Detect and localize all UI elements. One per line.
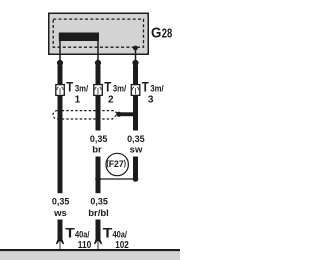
- pin knob 1: [57, 60, 63, 66]
- wire 1 upper segment: [58, 66, 63, 85]
- label T3m/ 2: [104, 80, 126, 106]
- shield dashed bottom line: [57, 115, 116, 119]
- wire label 0,35 br/bl: [88, 197, 109, 219]
- shield connection dot on dashed outline: [133, 46, 138, 51]
- svg-text:G: G: [151, 24, 161, 41]
- svg-text:0,35: 0,35: [127, 134, 145, 144]
- pin stem 2: [97, 41, 99, 61]
- connector T3m/2 symbol: [94, 85, 103, 96]
- wire 2 segment below connector: [96, 96, 101, 131]
- wire 2 bottom segment: [96, 220, 101, 240]
- svg-text:1: 1: [75, 94, 81, 105]
- svg-text:0,35: 0,35: [90, 134, 108, 144]
- wire label 0,35 br: [90, 134, 108, 155]
- connection designation circle F27: [106, 153, 128, 175]
- wire end arrow 1: [56, 239, 64, 249]
- wire label 0,35 sw: [127, 134, 145, 155]
- connector T3m/3 symbol: [131, 85, 140, 96]
- wire 1 long middle segment: [58, 96, 63, 193]
- svg-text:T: T: [142, 80, 150, 95]
- svg-text:40a/: 40a/: [75, 230, 90, 241]
- svg-text:ws: ws: [53, 208, 67, 219]
- shield dashed cap left: [53, 111, 57, 119]
- svg-text:T: T: [66, 80, 74, 95]
- pin knob 3: [132, 60, 138, 66]
- G28 sensor element bar: [59, 33, 99, 42]
- label G28: [151, 24, 172, 41]
- bottom rail line: [0, 249, 180, 251]
- svg-text:sw: sw: [130, 144, 143, 155]
- pin stem 1: [59, 41, 61, 61]
- junction dot on wire 3: [133, 176, 139, 182]
- label T3m/ 3: [142, 80, 164, 106]
- svg-text:3m/: 3m/: [75, 84, 89, 95]
- svg-text:40a/: 40a/: [113, 230, 128, 241]
- wire 3 middle segment: [133, 157, 138, 180]
- junction line wire2-wire3: [98, 178, 136, 180]
- svg-text:3: 3: [148, 94, 154, 105]
- connector T3m/1 symbol: [56, 85, 65, 96]
- svg-text:0,35: 0,35: [90, 197, 108, 207]
- shield junction dot: [116, 112, 121, 117]
- wire 2 upper segment: [96, 66, 101, 85]
- wire 3 segment below connector: [133, 96, 138, 131]
- wire label 0,35 ws: [52, 197, 70, 219]
- svg-text:F27: F27: [109, 159, 124, 170]
- shield-to-wire3 connection bar: [119, 112, 138, 116]
- sensor G28 housing box: [49, 13, 149, 54]
- svg-text:br/bl: br/bl: [88, 208, 109, 219]
- wire end arrow 2: [94, 239, 102, 249]
- label T40a/ 102: [103, 226, 129, 252]
- G28 dashed component outline: [53, 19, 143, 47]
- svg-text:3m/: 3m/: [150, 84, 164, 95]
- label T3m/ 1: [66, 80, 88, 106]
- junction dot on wire 2: [95, 176, 101, 182]
- label T40a/ 110: [65, 226, 91, 252]
- svg-text:0,35: 0,35: [52, 197, 70, 207]
- pin stem 3: [135, 48, 137, 61]
- svg-text:T: T: [104, 80, 112, 95]
- wire 3 upper segment: [133, 66, 138, 85]
- svg-text:3m/: 3m/: [113, 84, 127, 95]
- pin knob 2: [95, 60, 101, 66]
- svg-text:2: 2: [108, 94, 114, 105]
- bottom track strip: [0, 252, 180, 260]
- shield dashed top line: [57, 111, 117, 114]
- wire 2 middle segment: [96, 157, 101, 194]
- svg-text:br: br: [92, 144, 102, 155]
- wire 1 bottom segment: [58, 220, 63, 240]
- svg-text:28: 28: [162, 25, 173, 40]
